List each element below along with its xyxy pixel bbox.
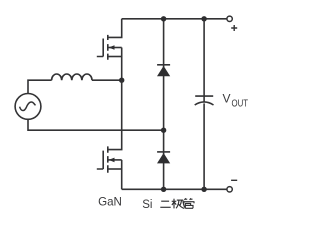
- node bottom rail diode leg junction: [161, 187, 166, 192]
- node bridge midpoint junction: [119, 78, 124, 83]
- label hanzi guan (tube): [184, 198, 195, 208]
- svg-text:OUT: OUT: [232, 99, 249, 110]
- transistor Q1 upper GaN FET: [97, 19, 122, 80]
- wire inductor to bridge midpoint: [92, 79, 122, 81]
- wire diode leg: [163, 19, 165, 190]
- diode D2 lower Si diode: [157, 152, 170, 164]
- inductor L1: [52, 74, 92, 80]
- terminal minus output: [227, 187, 232, 192]
- node diode midpoint junction: [161, 128, 166, 133]
- wire ac top lead: [28, 80, 52, 93]
- capacitor C1 output cap: [195, 19, 214, 190]
- wire bottom rail: [122, 188, 227, 190]
- node top rail diode leg junction: [161, 16, 166, 21]
- node bottom rail cap leg junction: [201, 187, 206, 192]
- wire ac bottom lead to diode midpoint: [28, 119, 164, 130]
- svg-text:V: V: [223, 92, 231, 106]
- transistor Q2 lower GaN FET: [97, 146, 122, 189]
- label minus sign: [231, 179, 237, 181]
- terminal plus output: [227, 16, 232, 21]
- label hanzi ji (pole): [172, 199, 185, 209]
- svg-text:GaN: GaN: [98, 195, 122, 209]
- ac source V1: [15, 94, 41, 120]
- wire top rail: [122, 18, 227, 20]
- diode D1 upper Si diode: [157, 65, 170, 77]
- svg-text:Si: Si: [142, 199, 152, 211]
- label plus sign: [231, 25, 237, 31]
- node top rail cap leg junction: [201, 16, 206, 21]
- wire midpoint down to Q2 drain: [108, 80, 122, 149]
- label hanzi er (two): [160, 201, 170, 207]
- label VOUT: [223, 92, 249, 110]
